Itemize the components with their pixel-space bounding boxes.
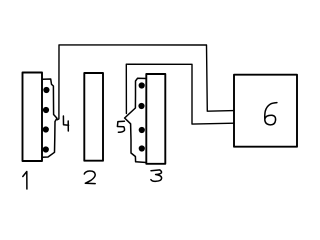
label 2	[84, 171, 95, 184]
contact dot 4 of block 3	[139, 145, 145, 151]
label 4	[63, 116, 68, 131]
wire from brace 4 to block 6 (upper input)	[57, 45, 234, 120]
block 6	[234, 75, 297, 147]
contact dot 1 of block 1	[43, 87, 49, 93]
block 2	[84, 73, 103, 161]
wire from brace 5 to block 6 (lower input)	[126, 64, 234, 124]
brace 5 (contact group bracket of block 3)	[125, 78, 147, 162]
label 1	[23, 172, 27, 190]
contact dot 1 of block 3	[139, 82, 145, 88]
label 3	[151, 170, 162, 181]
contact dot 2 of block 1	[43, 107, 49, 113]
label 5	[117, 121, 124, 132]
block 3	[146, 74, 165, 164]
contact dot 3 of block 1	[43, 126, 49, 132]
contact dot 4 of block 1	[43, 146, 49, 152]
brace 4 (contact group bracket of block 1)	[43, 79, 58, 157]
contact dot 2 of block 3	[138, 103, 144, 109]
block 1	[23, 73, 43, 162]
label 6	[265, 103, 277, 125]
contact dot 3 of block 3	[139, 127, 145, 133]
